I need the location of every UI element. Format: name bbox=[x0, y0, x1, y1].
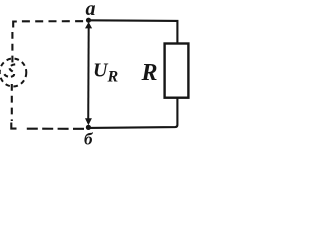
svg-text:a: a bbox=[86, 0, 96, 20]
wire dashed left lower (box left side, below source) bbox=[11, 84, 13, 121]
voltage arrowhead down (at node b) bbox=[85, 118, 92, 125]
wire dashed top corner (top-left corner piece) bbox=[13, 22, 17, 28]
voltage arrow U_R (line between a and b) bbox=[87, 24, 90, 123]
node b (terminal dot) bbox=[86, 125, 91, 130]
node a (terminal dot) bbox=[86, 18, 91, 23]
resistor R (rectangle body) bbox=[165, 44, 189, 98]
wire top (node a to resistor branch) bbox=[89, 20, 178, 43]
svg-text:R: R bbox=[107, 69, 119, 86]
source sine symbol (dashed S-squiggle) bbox=[4, 64, 15, 77]
source circle (equivalent source, dashed) bbox=[0, 59, 26, 87]
wire bottom (resistor to node b) bbox=[89, 98, 177, 128]
svg-text:R: R bbox=[141, 60, 158, 86]
wire dashed bottom corner (bottom-left corner piece) bbox=[11, 123, 16, 129]
wire dashed left upper (box left side, above source) bbox=[11, 32, 13, 63]
wire dashed top (active two-terminal network box, top side) bbox=[22, 20, 88, 22]
voltage arrowhead up (at node a) bbox=[85, 22, 92, 28]
wire dashed bottom (box bottom side) bbox=[27, 128, 84, 130]
